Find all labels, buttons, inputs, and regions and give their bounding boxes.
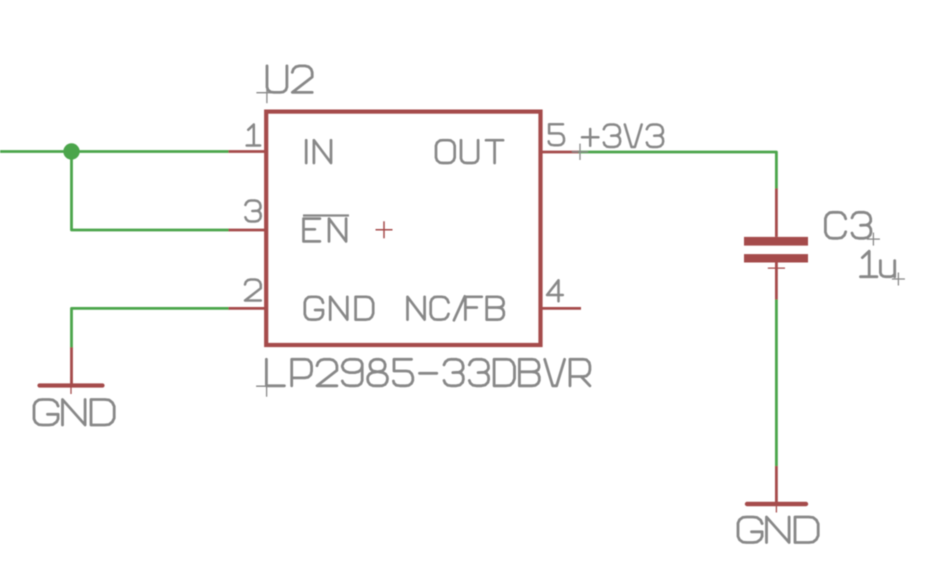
pin name GND: [305, 297, 373, 320]
pin 3 EN stub: [229, 229, 267, 232]
capacitor C3 plates: [744, 237, 808, 246]
pin 4 NC/FB stub: [541, 307, 582, 310]
pin 5 OUT stub: [541, 151, 579, 154]
C3 label origin cross: [867, 238, 880, 240]
wire pin 2 to ground: [72, 308, 229, 347]
pin 1 number: [247, 125, 260, 146]
label U2 name: [267, 66, 312, 93]
value origin cross: [256, 385, 277, 387]
value 1u: [861, 251, 895, 277]
capacitor C3 top lead: [775, 188, 778, 237]
pin name OUT: [436, 140, 503, 163]
1u value origin cross: [892, 278, 905, 280]
junction dot: [63, 143, 79, 159]
pin 4 number: [547, 280, 563, 301]
ground GND1 pin: [70, 347, 73, 385]
value LP2985-33DBVR: [266, 359, 590, 386]
pin name IN: [306, 140, 331, 163]
pin 5 number: [549, 124, 564, 145]
pin 2 number: [245, 280, 261, 301]
op-amp/regulator U2 body: [266, 112, 540, 345]
pin name NC/FB: [408, 296, 504, 320]
pin name EN with overline: [304, 219, 347, 242]
label GND2: [738, 517, 818, 543]
GND2 origin cross: [768, 503, 785, 505]
U2 name origin cross: [256, 92, 277, 94]
label GND1: [34, 400, 114, 426]
net label +3V3: [582, 125, 663, 148]
ground GND2 bar: [747, 502, 806, 506]
wire OUT net +3V3: [579, 152, 777, 188]
pin 2 GND stub: [229, 307, 267, 310]
capacitor C3 bottom lead: [775, 263, 778, 300]
wire capacitor to ground: [775, 300, 778, 467]
+3V3 origin cross: [572, 151, 588, 153]
ground GND2 pin: [775, 466, 778, 504]
GND1 origin cross: [63, 385, 80, 387]
C3 origin cross: [768, 267, 785, 269]
U2 origin cross: [376, 229, 393, 231]
ground GND1 bar: [40, 383, 103, 387]
wire junction to pin 3 EN: [72, 152, 229, 231]
pin 3 number: [245, 201, 260, 222]
pin 1 IN stub: [229, 150, 267, 153]
wire input net horizontal: [0, 150, 229, 153]
label C3: [825, 212, 871, 238]
